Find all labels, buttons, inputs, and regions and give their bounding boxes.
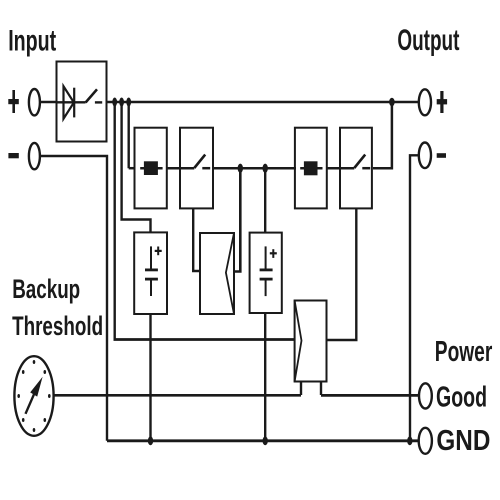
svg-text:Input: Input <box>8 24 56 57</box>
svg-text:Output: Output <box>397 24 459 57</box>
svg-text:Power: Power <box>435 336 493 368</box>
svg-text:GND: GND <box>436 425 490 457</box>
svg-text:Threshold: Threshold <box>12 311 103 341</box>
svg-text:Good: Good <box>436 381 487 413</box>
svg-text:Backup: Backup <box>12 274 80 304</box>
